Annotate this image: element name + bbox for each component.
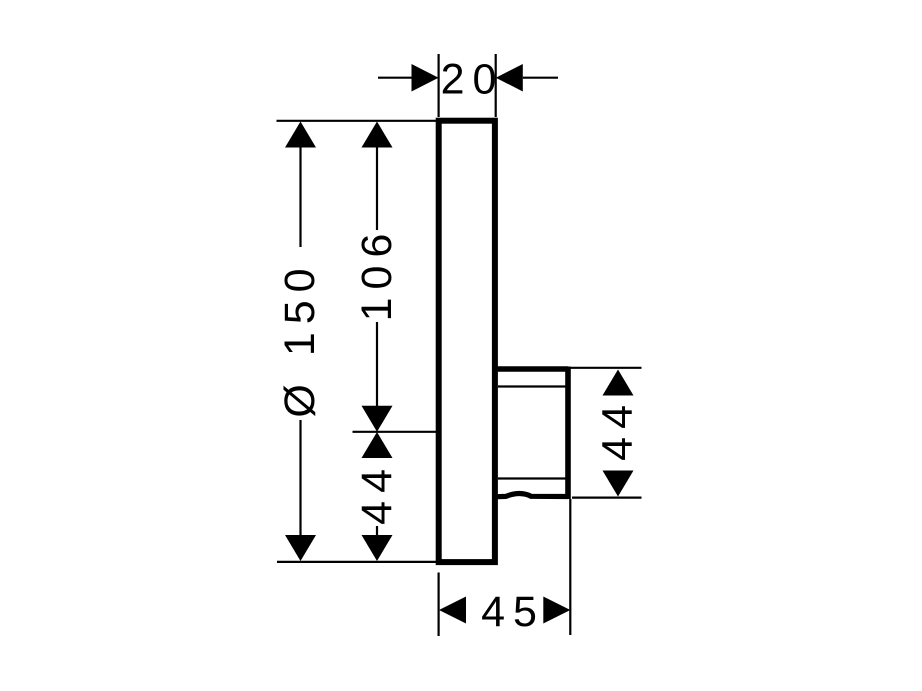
- extension line 20-dim right vertical: [495, 54, 497, 117]
- svg-text:106: 106: [353, 226, 401, 322]
- dimension line 44-left lower segment: [376, 526, 378, 536]
- dimension 20 left arrow: [412, 64, 439, 92]
- dimension Ø150 top arrow: [285, 122, 316, 148]
- svg-text:20: 20: [441, 56, 505, 104]
- extension line top-left (plate top): [277, 120, 438, 122]
- dimension 44-left bottom arrow: [362, 535, 393, 561]
- extension line 45 left vertical: [438, 573, 440, 637]
- svg-text:44: 44: [594, 397, 642, 461]
- extension line middle (handle centerline): [353, 431, 438, 433]
- handle inner bottom line: [498, 477, 566, 479]
- svg-text:44: 44: [353, 461, 401, 525]
- extension line bottom-left (plate bottom): [277, 561, 437, 563]
- dimension 45 left arrow: [439, 597, 466, 624]
- dimension 106 top arrow: [362, 122, 393, 148]
- plate outline (escutcheon side view): [439, 121, 495, 562]
- extension line 45 right vertical: [569, 499, 571, 635]
- dimension 45 right arrow: [543, 597, 570, 624]
- handle inner top line: [498, 385, 566, 387]
- dimension 106 bottom arrow: [362, 406, 393, 432]
- dimension 44-right top arrow: [603, 370, 634, 396]
- dimension 44-left top arrow: [362, 432, 393, 458]
- handle body outline (valve box side view): [494, 367, 568, 500]
- dimension 20 left tail: [378, 77, 412, 79]
- dimension line 106 lower segment: [376, 322, 378, 406]
- dimension line Ø150 lower segment: [299, 420, 301, 537]
- extension line 20-dim left vertical: [438, 54, 440, 117]
- dimension Ø150 bottom arrow: [285, 535, 316, 561]
- svg-text:Ø 150: Ø 150: [276, 260, 324, 417]
- dimension 20 right tail: [523, 77, 558, 79]
- dimension line 106 upper segment: [376, 146, 378, 230]
- dimension 20 right arrow: [496, 64, 523, 92]
- svg-text:45: 45: [481, 588, 545, 636]
- dimension 44-right bottom arrow: [603, 471, 634, 497]
- dimension line Ø150 upper segment: [299, 146, 301, 247]
- extension line 44-right top: [570, 367, 642, 369]
- extension line 44-right bottom: [572, 497, 642, 499]
